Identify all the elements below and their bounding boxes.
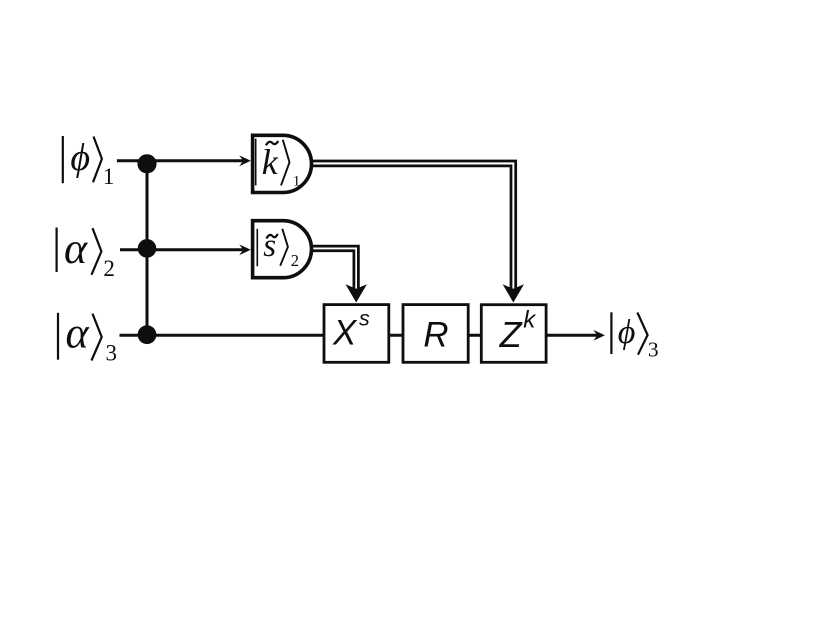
svg-text:k: k bbox=[523, 307, 537, 334]
svg-text:1: 1 bbox=[293, 173, 301, 189]
svg-text:ϕ: ϕ bbox=[618, 314, 636, 351]
svg-text:k: k bbox=[262, 142, 279, 182]
svg-text:3: 3 bbox=[648, 338, 659, 362]
svg-text:X: X bbox=[332, 314, 358, 353]
svg-text:3: 3 bbox=[106, 341, 118, 366]
svg-text:α: α bbox=[64, 224, 88, 273]
svg-text:s: s bbox=[359, 306, 370, 330]
svg-text:ϕ: ϕ bbox=[70, 137, 90, 179]
svg-text:s: s bbox=[263, 228, 276, 264]
svg-text:2: 2 bbox=[103, 256, 115, 281]
svg-text:2: 2 bbox=[291, 251, 299, 270]
svg-text:α: α bbox=[66, 309, 90, 358]
svg-text:1: 1 bbox=[103, 164, 115, 189]
svg-text:R: R bbox=[423, 315, 448, 354]
svg-text:Z: Z bbox=[499, 314, 523, 355]
